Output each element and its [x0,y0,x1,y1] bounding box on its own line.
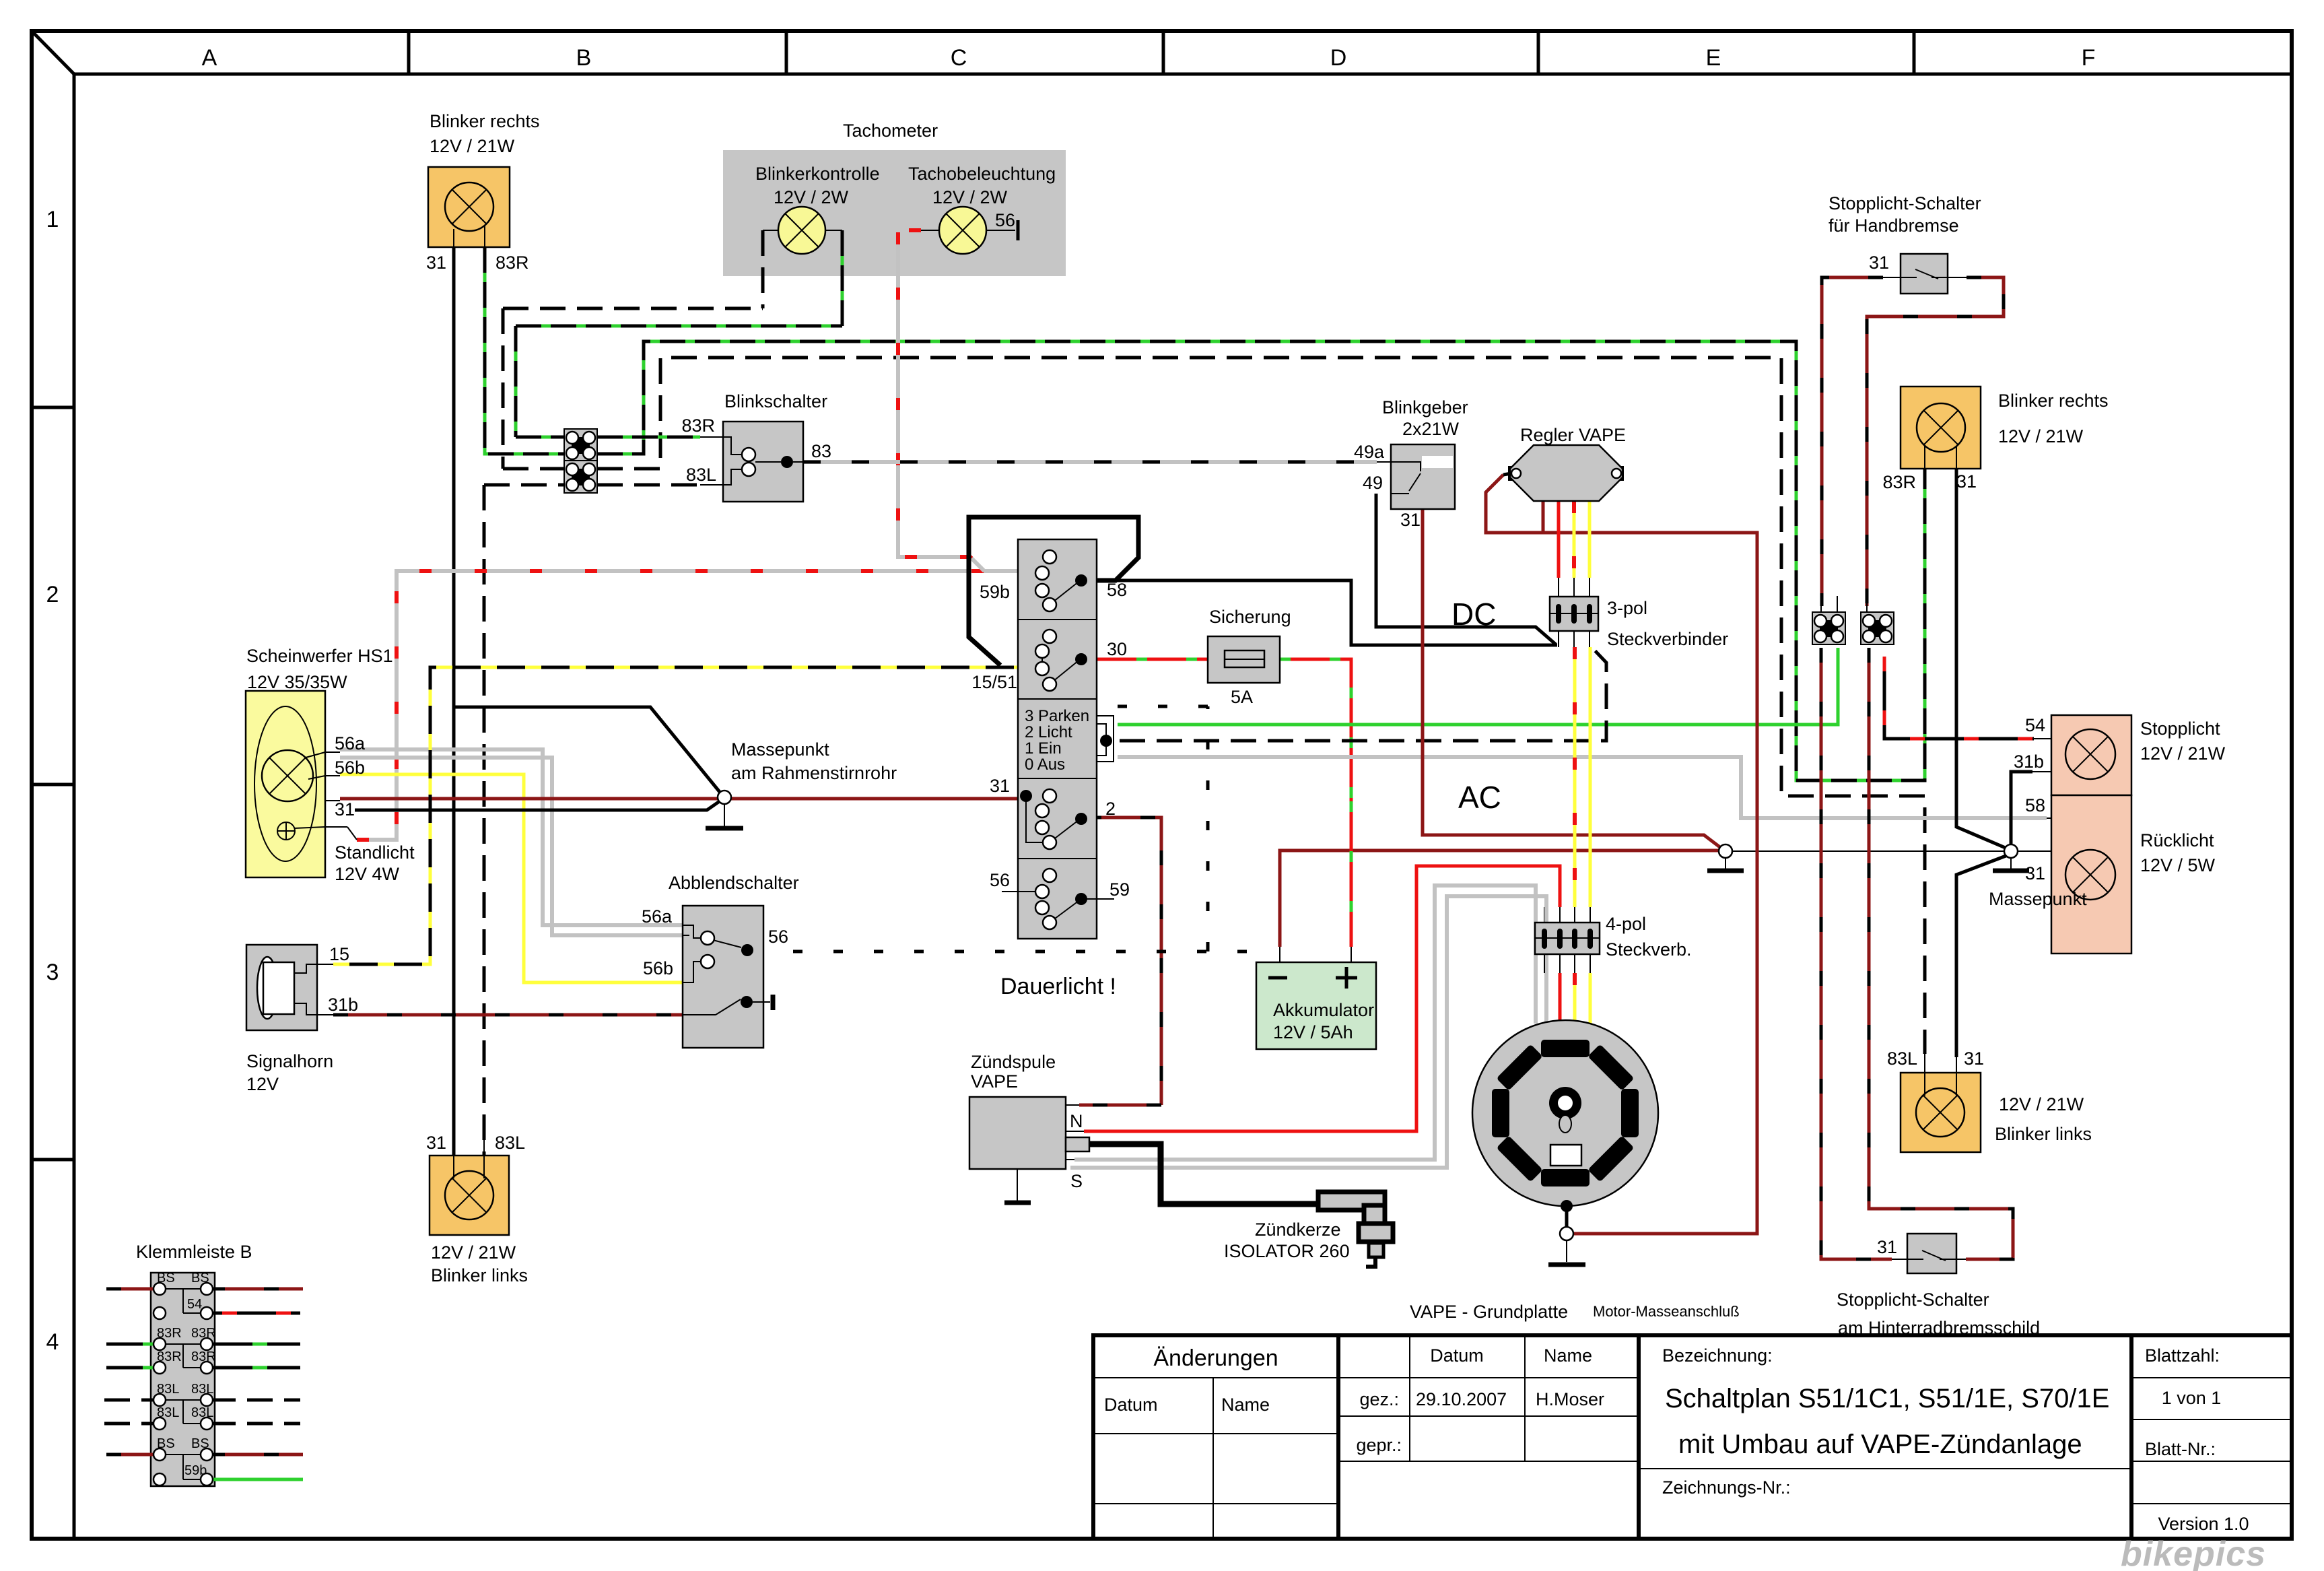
stub connector A top-right [1837,596,1838,612]
svg-text:29.10.2007: 29.10.2007 [1416,1389,1507,1409]
stubs 3-pol top pins [1559,578,1590,597]
wire 31b stopplicht [2011,772,2032,846]
svg-text:Stopplicht-Schalter: Stopplicht-Schalter [1829,193,1981,213]
pin zuendspule kill [1066,1104,1079,1106]
wire blinkerkontrolle left down [761,230,765,308]
svg-text:59b: 59b [980,582,1010,602]
svg-text:83R: 83R [191,1326,216,1341]
wire blinkerkontrolle right down [841,230,844,326]
wire 31 battery minus to ground node [1280,850,1719,947]
svg-text:4-pol: 4-pol [1606,914,1646,934]
stub regler tab [1503,473,1511,475]
svg-text:Regler VAPE: Regler VAPE [1520,425,1626,445]
wire 31 headlight to switch [340,797,1025,801]
klemmleiste wires row5 83L [104,1399,300,1402]
klemmleiste wires row6 83L [104,1422,300,1426]
pin 49a blinkgeber [1377,461,1391,463]
svg-text:83: 83 [811,441,831,461]
svg-text:59: 59 [1109,879,1130,900]
svg-text:Name: Name [1221,1395,1270,1415]
connector B rear left [1861,612,1894,644]
svg-text:83L: 83L [191,1382,213,1397]
svg-text:31: 31 [1869,253,1889,273]
svg-text:5A: 5A [1231,687,1253,707]
pin 58 ruecklicht [2047,817,2051,819]
terminal bar 56 tacho [1017,220,1020,240]
svg-text:Blinker rechts: Blinker rechts [430,111,540,131]
svg-text:Scheinwerfer HS1: Scheinwerfer HS1 [246,646,393,666]
svg-text:12V: 12V [246,1074,279,1094]
stub connector A top-left [1820,597,1822,612]
svg-text:Blinker links: Blinker links [1995,1124,2092,1144]
stopplicht-schalter hinterrad body [1907,1234,1956,1273]
3-pol steckverbinder body [1550,597,1598,631]
klemmleiste wire row2 54 [210,1312,300,1315]
blinkgeber body [1391,444,1455,509]
blinkschalter body [723,422,803,502]
wire 83L long bus to rear left blinker [597,358,1925,1054]
lamp stopplicht [2065,729,2115,779]
svg-text:Rücklicht: Rücklicht [2140,830,2214,850]
massepunkt rear node [2004,844,2018,858]
vape grundplatte flywheel [1472,1020,1658,1206]
svg-text:Blinkschalter: Blinkschalter [724,391,827,411]
wire tachobeleuchtung red stub [895,228,921,232]
svg-text:gepr.:: gepr.: [1356,1435,1402,1455]
svg-text:BS: BS [191,1271,209,1285]
svg-text:56: 56 [990,870,1010,890]
svg-text:Stopplicht-Schalter: Stopplicht-Schalter [1837,1290,1989,1310]
wire 31 branch to massepunkt [454,707,722,795]
4-pol steckverbinder body [1535,923,1600,954]
flywheel ground contact [1561,1200,1573,1212]
pin handbrake switch right [1948,277,1967,278]
switch section4 contacts 31 2 [1026,796,1079,842]
wire 31 blinker rechts front to massepunkt branch [452,247,456,1156]
blinker rechts rear pin stubs [1925,446,1956,471]
wire 83 blinkschalter to blinkgeber 49a [803,460,1377,464]
stubs 4-pol bottom pins [1544,954,1590,973]
svg-text:Akkumulator: Akkumulator [1273,1000,1374,1020]
stopplicht-schalter handbremse body [1901,254,1948,294]
wire 54 connector B to stopplicht [1884,657,2034,739]
svg-text:Tachometer: Tachometer [843,121,938,141]
title block thin lines [1093,1335,2292,1539]
svg-text:83L: 83L [191,1405,213,1420]
svg-text:12V / 21W: 12V / 21W [1998,426,2084,446]
svg-text:BS: BS [157,1436,175,1451]
svg-text:15/51: 15/51 [971,672,1017,692]
svg-text:C: C [951,45,967,71]
svg-text:56b: 56b [335,758,365,778]
svg-text:2: 2 [46,582,59,607]
stub 3-pol right pin bottom [1589,631,1590,647]
title block outer [1093,1335,2292,1539]
wire standlicht diagonal [347,827,357,840]
svg-text:59b: 59b [184,1463,207,1478]
svg-text:3 Parken: 3 Parken [1025,707,1089,725]
wire 83R long bus to rear right blinker [597,341,1925,780]
pin 56a headlight [325,751,340,753]
svg-text:12V / 5Ah: 12V / 5Ah [1273,1022,1353,1042]
blinker rechts front lamp box [428,167,510,247]
svg-text:F: F [2082,45,2096,71]
wire 83L row4 horizontal [484,483,564,487]
wire 30 switch to fuse [1087,658,1208,661]
wire handbrake switch to connector B [1867,277,2004,606]
svg-text:30: 30 [1107,639,1127,659]
ground node battery minus [1719,844,1732,858]
svg-text:Motor-Masseanschluß: Motor-Masseanschluß [1593,1303,1740,1320]
klemmleiste wires row7 BS [106,1453,303,1457]
svg-text:Blinker rechts: Blinker rechts [1998,391,2109,411]
switch section2 contacts 15/51 30 [1042,658,1079,684]
wire regler yellow to 3-pol [1588,501,1592,578]
wire regler pin1 maroon [1542,501,1545,534]
pin 56b headlight [325,775,340,776]
blinker links rear lamp box [1901,1073,1981,1152]
svg-text:83L: 83L [157,1382,179,1397]
svg-text:N: N [1070,1111,1083,1131]
svg-text:Dauerlicht !: Dauerlicht ! [1000,974,1116,999]
svg-text:Blinkgeber: Blinkgeber [1382,397,1468,417]
svg-text:A: A [202,45,217,71]
svg-text:31: 31 [1877,1237,1897,1257]
wire ground node to rear massepunkt [1732,850,2005,852]
svg-text:83L: 83L [157,1405,179,1420]
svg-text:AC: AC [1458,780,1501,815]
svg-text:Klemmleiste B: Klemmleiste B [136,1242,252,1262]
stopplicht lamp box [2051,715,2131,795]
svg-text:83R: 83R [681,415,715,436]
stub 3-pol mid pin bottom [1573,631,1575,647]
svg-text:83L: 83L [1887,1048,1917,1069]
tachometer box [723,150,1066,276]
svg-text:58: 58 [1107,580,1127,600]
svg-text:56: 56 [768,927,788,947]
switch section1 contacts 59b 58 [1050,582,1079,605]
wire red 4-pol to flywheel [1559,973,1562,1027]
svg-text:31: 31 [335,799,355,820]
scheinwerfer bulb connection lines [294,752,325,828]
klemmleiste wires row1 BS [106,1288,303,1291]
zuendspule body [969,1097,1066,1169]
blinker rechts rear lamp box [1901,387,1981,469]
svg-text:12V / 2W: 12V / 2W [932,187,1008,207]
svg-text:Datum: Datum [1430,1345,1484,1366]
pin 15 signalhorn [317,964,333,965]
svg-text:2: 2 [1105,799,1116,819]
wire yellow 4-pol to flywheel [1589,973,1592,1027]
switch section5 contacts 56 59 [1002,892,1114,923]
wire 83R connector row1 to blinkschalter [597,436,700,439]
pin standlicht headlight [325,826,347,828]
svg-text:31b: 31b [328,995,358,1015]
wire 59b standlicht riser [357,571,1033,840]
svg-text:56: 56 [995,210,1015,230]
wire tachobeleuchtung right pin 56 [986,230,1015,231]
klemmleiste wire row8 59b [210,1478,303,1481]
svg-text:49a: 49a [1354,442,1385,462]
svg-text:Sicherung: Sicherung [1209,607,1291,627]
svg-text:H.Moser: H.Moser [1536,1389,1604,1409]
svg-text:12V / 2W: 12V / 2W [774,187,849,207]
wire 49 blinkgeber to 3-pol [1376,494,1556,644]
svg-text:Datum: Datum [1104,1395,1158,1415]
svg-text:Zündkerze: Zündkerze [1255,1219,1341,1240]
svg-text:Blinkerkontrolle: Blinkerkontrolle [755,164,880,184]
wire regler yellow-red to 3-pol [1573,501,1576,578]
svg-text:31: 31 [426,253,446,273]
blinker links rear pin stubs [1925,1052,1956,1096]
stub connector B top-left [1866,597,1868,612]
svg-text:BS: BS [157,1271,175,1285]
svg-text:56a: 56a [642,906,673,927]
svg-text:DC: DC [1451,597,1496,632]
svg-text:12V 4W: 12V 4W [335,864,400,884]
pin zuendspule S [1066,1159,1074,1160]
abblendschalter body [683,906,763,1048]
svg-text:12V / 21W: 12V / 21W [1999,1094,2084,1114]
wire zuendkerze HT lead [1089,1144,1321,1204]
wire 30 battery crossing overlay [1350,801,1353,947]
title block thick verticals [1338,1335,2131,1539]
svg-text:31b: 31b [2014,751,2044,772]
main light switch block body [1018,539,1097,939]
svg-text:für Handbremse: für Handbremse [1829,215,1959,236]
signalhorn body [246,945,317,1030]
pin handbrake switch left [1883,277,1901,278]
svg-text:am Rahmenstirnrohr: am Rahmenstirnrohr [731,763,897,783]
svg-text:1: 1 [46,207,59,232]
wire 83R thin into blinkschalter [700,436,723,438]
svg-text:31: 31 [2025,863,2045,883]
svg-text:gez.:: gez.: [1359,1389,1399,1409]
lamp blinker rechts rear [1917,403,1965,452]
svg-text:0 Aus: 0 Aus [1025,756,1065,774]
fuse sicherung body [1208,636,1280,683]
svg-text:Abblendschalter: Abblendschalter [669,873,799,893]
wire licht black dashed to 3-pol [1120,647,1606,741]
wire connector A to rear brake switch [1821,648,1892,1259]
pin 31b signalhorn [317,1014,333,1015]
svg-text:56b: 56b [643,958,673,978]
svg-text:31: 31 [990,776,1010,796]
wire red zuendspule N to 4-pol [1084,866,1560,1131]
svg-text:Schaltplan S51/1C1, S51/1E, S7: Schaltplan S51/1C1, S51/1E, S70/1E [1665,1384,2109,1413]
lamp ruecklicht [2065,850,2115,900]
svg-text:54: 54 [187,1297,202,1312]
wire 15-51 thin to pin [1030,668,1035,669]
blinkerkontrolle lamp [778,207,825,254]
svg-text:56a: 56a [335,733,366,754]
svg-text:D: D [1330,45,1347,71]
scheinwerfer box [246,691,325,877]
wire yellow 3-pol to 4-pol [1589,647,1592,907]
scheinwerfer reflector ellipse [254,706,316,861]
wire regler red to 3-pol [1557,501,1561,578]
lamp blinker links front [445,1171,493,1219]
svg-text:49: 49 [1363,473,1383,493]
svg-text:2 Licht: 2 Licht [1025,723,1072,741]
svg-text:Zeichnungs-Nr.:: Zeichnungs-Nr.: [1662,1477,1791,1498]
pin 31 headlight [325,800,340,801]
svg-text:12V / 21W: 12V / 21W [431,1242,516,1263]
ruecklicht lamp box [2051,795,2131,954]
svg-text:E: E [1706,45,1721,71]
svg-text:B: B [576,45,592,71]
svg-text:Standlicht: Standlicht [335,842,415,863]
svg-text:83R: 83R [495,253,529,273]
row divider ticks [32,407,74,1160]
svg-text:Änderungen: Änderungen [1153,1345,1278,1371]
svg-text:Tachobeleuchtung: Tachobeleuchtung [908,164,1056,184]
pin 31 ruecklicht [2017,850,2051,852]
svg-text:mit Umbau auf VAPE-Zündanlage: mit Umbau auf VAPE-Zündanlage [1678,1430,2082,1459]
svg-text:31: 31 [1964,1048,1984,1069]
svg-text:S: S [1070,1171,1083,1191]
regler vape body [1508,466,1522,481]
pin rear brake switch right [1956,1259,1966,1260]
svg-text:1 Ein: 1 Ein [1025,739,1062,758]
wire connector B to rear brake switch [1869,648,2013,1259]
wire 83L connector row4 to blinkschalter [597,483,700,487]
svg-text:Zündspule: Zündspule [971,1052,1056,1072]
svg-text:83L: 83L [495,1133,525,1153]
wire 59b tacho branch [898,232,984,571]
zuendspule ground [1017,1169,1018,1201]
switch position bracket [1097,716,1114,762]
wire gray to ruecklicht 58 [1118,757,2047,818]
svg-text:12V 35/35W: 12V 35/35W [247,672,347,692]
svg-text:12V / 5W: 12V / 5W [2140,855,2216,875]
wire yellow-red 3-pol to 4-pol [1573,647,1577,907]
wire gray zuendspule S outer [1074,885,1536,1160]
svg-text:3-pol: 3-pol [1607,598,1647,618]
standlicht symbol [277,822,295,840]
lamp blinker links rear [1916,1088,1964,1137]
wire blinkerkontrolle plus bus [516,326,842,437]
svg-text:Massepunkt: Massepunkt [1989,889,2087,909]
pin zuendspule N [1066,1131,1084,1132]
pin 31b stopplicht [2032,771,2051,772]
wire 31 rear blinker rechts down [1956,469,2007,848]
svg-text:Blatt-Nr.:: Blatt-Nr.: [2145,1439,2216,1459]
connector A rear right [1812,612,1845,644]
svg-text:Stopplicht: Stopplicht [2140,718,2220,739]
svg-text:4: 4 [46,1329,59,1355]
svg-text:83R: 83R [1882,472,1916,492]
wire gray zuendspule S inner [1070,896,1546,1168]
massepunkt am rahmenstirnrohr node [718,791,731,804]
wire 31b signalhorn to abblendschalter [333,1013,683,1017]
svg-text:2x21W: 2x21W [1402,419,1460,439]
svg-text:Steckverbinder: Steckverbinder [1607,629,1728,649]
pin rear brake switch left [1892,1259,1907,1260]
wire 56b yellow [340,774,683,982]
wire blinkerkontrolle left pin [763,230,778,231]
pin battery minus [1279,947,1280,962]
svg-text:12V / 21W: 12V / 21W [430,136,515,156]
svg-text:15: 15 [329,944,349,964]
svg-text:Massepunkt: Massepunkt [731,739,829,760]
svg-text:3: 3 [46,960,59,985]
svg-text:Signalhorn: Signalhorn [246,1051,333,1071]
wire blinkerkontrolle minus bus [503,308,763,469]
akkumulator box [1256,962,1376,1049]
klemmleiste B body [151,1273,215,1486]
lamp blinker rechts front [445,182,493,231]
svg-text:BS: BS [191,1436,209,1451]
pin battery plus [1351,947,1352,962]
wire 83L thin into blinkschalter [700,484,723,486]
wire 31 handbrake switch left [1822,277,1883,606]
svg-text:Version 1.0: Version 1.0 [2158,1514,2249,1534]
svg-text:83L: 83L [686,465,716,485]
wire 59b thin to switch pin [1029,572,1035,574]
svg-text:58: 58 [2025,795,2045,815]
wire 31 blinkgeber to ground node [1423,509,1721,848]
svg-text:83R: 83R [191,1349,216,1364]
svg-text:54: 54 [2025,715,2045,735]
wire 31 rear massepunkt to blinker links [1956,855,2008,1057]
stub 3-pol left pin bottom [1558,631,1559,647]
wire 56 abblendschalter sparse dashed [753,706,1252,951]
blinker links front lamp box [430,1156,509,1235]
svg-text:Name: Name [1544,1345,1592,1366]
svg-text:83R: 83R [157,1326,182,1341]
wire 30 fuse to battery plus [1280,659,1351,947]
svg-text:31: 31 [426,1133,446,1153]
zuendkerze spark plug [1318,1192,1393,1267]
wire 56a gray pair lower [340,758,683,935]
pin 54 stopplicht [2034,738,2051,739]
wire 2 switch to zuendspule [1079,817,1161,1105]
wire 56a gray pair upper [340,749,683,925]
column divider ticks [409,31,1914,74]
blinker rechts front pin stubs [454,226,485,263]
connector pair front lower [564,461,597,493]
lamp scheinwerfer main [262,750,313,801]
svg-text:83R: 83R [157,1349,182,1364]
svg-text:1 von 1: 1 von 1 [2162,1388,2222,1408]
wire 15 yellow-black to switch [333,667,1030,964]
svg-text:ISOLATOR 260: ISOLATOR 260 [1224,1241,1350,1261]
wire regler ground maroon [1486,475,1757,1234]
blinker links front pin stubs [454,1138,484,1178]
svg-text:bikepics: bikepics [2121,1535,2266,1571]
wire 58 dauerlicht bridge [969,517,1138,665]
connector pair front upper [564,429,597,461]
svg-text:31: 31 [1956,471,1977,492]
svg-text:Blattzahl:: Blattzahl: [2145,1345,2220,1366]
wire blinkerkontrolle right pin [825,230,842,231]
klemmleiste wires row4 83R [106,1366,300,1370]
svg-text:31: 31 [1400,510,1421,530]
wire tachobeleuchtung left pin [921,230,939,231]
svg-text:VAPE: VAPE [971,1071,1018,1092]
wire licht green to connector A [1118,648,1838,725]
svg-text:VAPE - Grundplatte: VAPE - Grundplatte [1410,1302,1568,1322]
wire 58 to 3-pol connector [1084,580,1557,645]
wire 83R blinker rechts front down to connector row2 [485,247,564,454]
wire yellow-red 4-pol to flywheel [1573,973,1577,1027]
svg-text:Steckverb.: Steckverb. [1606,939,1692,960]
klemmleiste wires row3 83R [106,1343,300,1346]
wire 30 through fuse [1208,659,1280,660]
wire headlight ground black [355,799,722,810]
stubs 4-pol top pins [1544,907,1590,923]
